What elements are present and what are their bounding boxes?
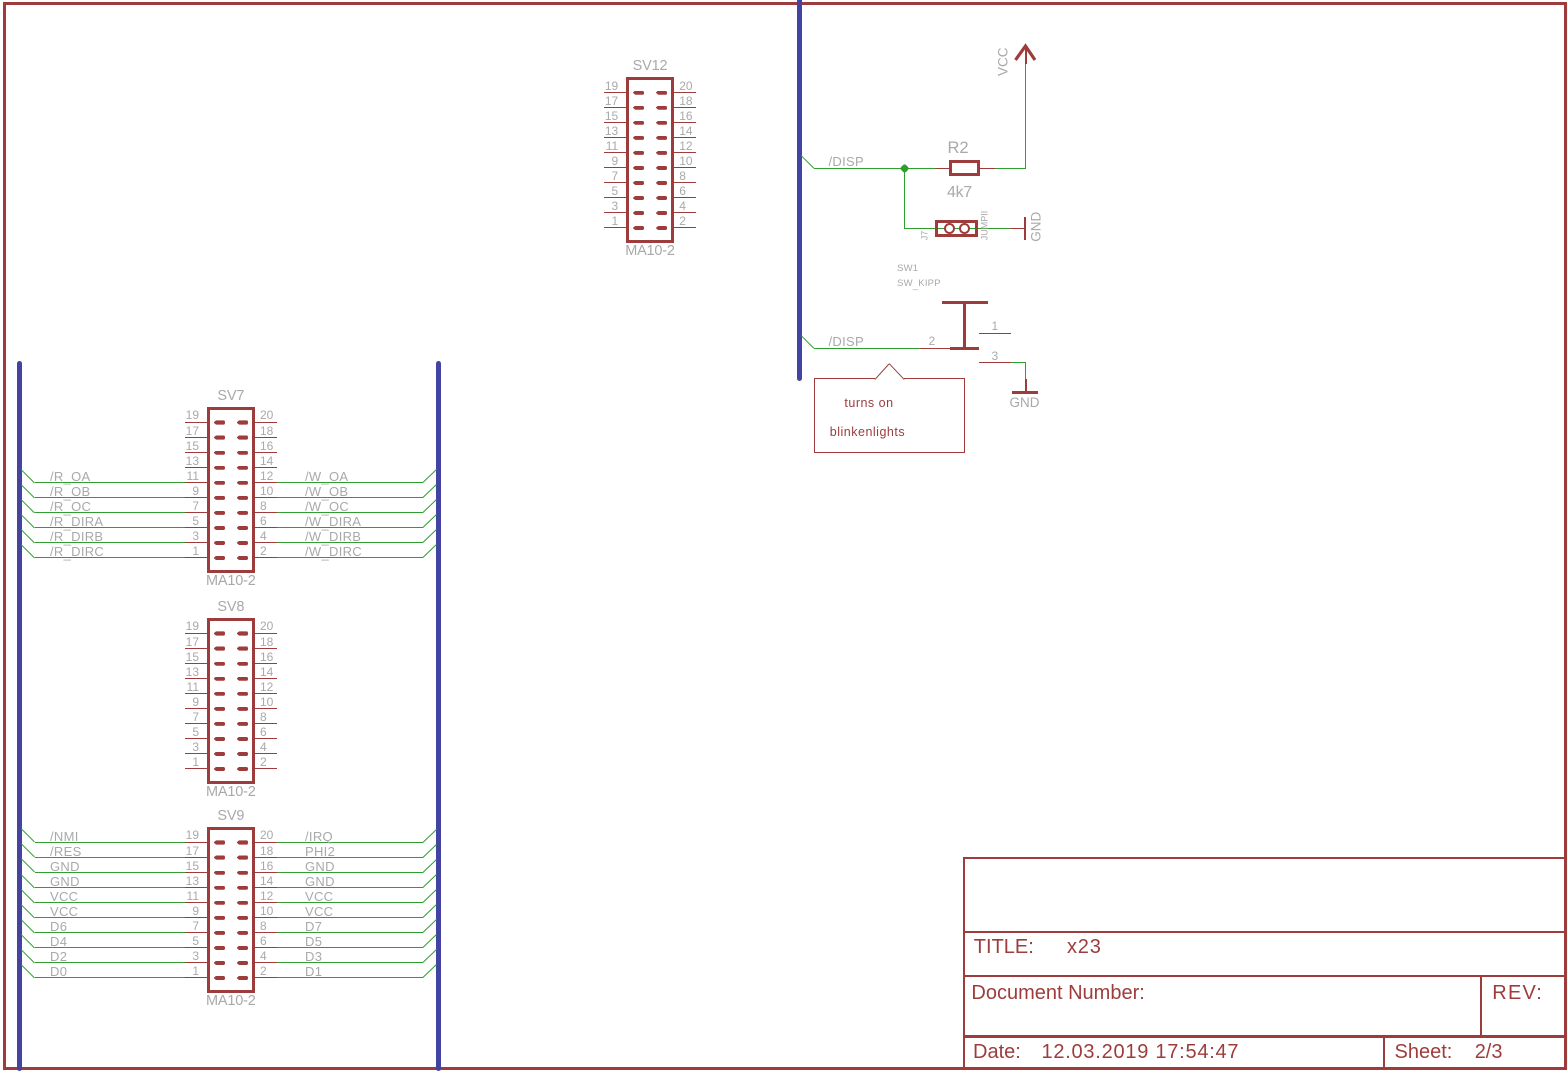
wire J7 to GND: [1010, 228, 1024, 229]
wire D1 (right): [277, 977, 424, 978]
SW1 pin 2: [920, 348, 950, 349]
jumper J7: [935, 220, 978, 237]
wire junction to J7: [904, 169, 905, 229]
SV8 pin 1: [185, 768, 207, 769]
SW1 pin 3: [979, 362, 1011, 363]
SV8 pin 14: [255, 678, 277, 679]
power symbol VCC: [1025, 46, 1027, 64]
SV9 pin 13: [185, 887, 207, 888]
SV12 name label: [610, 59, 690, 74]
net label /DISP: [829, 155, 864, 168]
net label /DISP (lower): [829, 335, 864, 348]
wire GND (right): [277, 887, 424, 888]
title block: [963, 857, 965, 1067]
net label D2: [50, 950, 67, 963]
wire D0 (left): [21, 964, 35, 978]
SV12 pin 3: [604, 212, 626, 213]
net label D3: [305, 950, 322, 963]
wire /R_OB (left): [21, 484, 35, 498]
SV12 pin 6: [674, 197, 696, 198]
SV12 pin 13: [604, 137, 626, 138]
SV8 pin 11: [185, 693, 207, 694]
net label D5: [305, 935, 322, 948]
wire VCC (right): [277, 902, 424, 903]
SV8 pin 18: [255, 648, 277, 649]
SV12 value MA10-2: [610, 244, 690, 259]
SV8 pin 8: [255, 723, 277, 724]
R2 value 4k7: [947, 185, 972, 201]
SV8 pin 15: [185, 663, 207, 664]
SV9 pin 16: [255, 872, 277, 873]
connector SV12 box: [626, 77, 674, 243]
SV9 pin 8: [255, 932, 277, 933]
net label VCC: [50, 890, 78, 903]
junction: [899, 164, 909, 174]
net label PHI2: [305, 845, 335, 858]
SV7 pin 14: [255, 467, 277, 468]
net label D6: [50, 920, 67, 933]
net label VCC: [305, 905, 333, 918]
net label D0: [50, 965, 67, 978]
wire /R_OA (left): [21, 469, 35, 483]
SV12 pin 20: [674, 92, 696, 93]
SV9 pin 1: [185, 977, 207, 978]
bus line right: [436, 361, 441, 1071]
bus line left: [17, 361, 22, 1071]
SV12 pin 9: [604, 167, 626, 168]
SV8 pin 7: [185, 723, 207, 724]
SV7 value MA10-2: [191, 574, 271, 589]
wire VCC (left): [21, 904, 35, 918]
SV12 pin 5: [604, 197, 626, 198]
SV7 pin 20: [255, 422, 277, 423]
net label /R_DIRA: [50, 515, 103, 528]
SV12 pin 10: [674, 167, 696, 168]
SV8 pin 19: [185, 633, 207, 634]
wire /W_OB (right): [277, 497, 424, 498]
SV7 pin 10: [255, 497, 277, 498]
net label /W_DIRC: [305, 545, 362, 558]
wire D7 (right): [277, 932, 424, 933]
net label GND: [50, 875, 80, 888]
wire /R_DIRC (left): [21, 544, 35, 558]
J7 value JUMPII: [981, 165, 990, 285]
SV7 pin 17: [185, 437, 207, 438]
date row: [973, 1042, 1021, 1062]
SV12 pin 15: [604, 122, 626, 123]
SV8 pin 13: [185, 678, 207, 679]
wire /W_OA (right): [277, 482, 424, 483]
SV12 pin 2: [674, 227, 696, 228]
wire GND (left): [21, 859, 35, 873]
SV7 pin 7: [185, 512, 207, 513]
ground GND (switch): [1025, 379, 1027, 393]
SV8 pin 17: [185, 648, 207, 649]
connector SV8 box: [207, 618, 255, 784]
connector SV9 box: [207, 827, 255, 993]
SV9 pin 19: [185, 842, 207, 843]
wire D6 (left): [21, 919, 35, 933]
wire /NMI (left): [21, 829, 35, 843]
net label /NMI: [50, 830, 79, 843]
SV8 value MA10-2: [191, 785, 271, 800]
SV7 pin 9: [185, 497, 207, 498]
net label /IRQ: [305, 830, 333, 843]
net label /R_DIRC: [50, 545, 104, 558]
wire D4 (left): [21, 934, 35, 948]
SV7 pin 4: [255, 542, 277, 543]
wire /R_DIRA (left): [21, 514, 35, 528]
wire D2 (left): [21, 949, 35, 963]
SV9 pin 20: [255, 842, 277, 843]
ground GND (jumper): [1024, 217, 1027, 241]
wire /IRQ (right): [277, 842, 424, 843]
SV9 pin 12: [255, 902, 277, 903]
SV7 pin 15: [185, 452, 207, 453]
SV7 pin 5: [185, 527, 207, 528]
SV9 pin 15: [185, 872, 207, 873]
SV9 pin 14: [255, 887, 277, 888]
wire /W_OC (right): [277, 512, 424, 513]
net label /W_DIRB: [305, 530, 361, 543]
SV8 pin 20: [255, 633, 277, 634]
wire GND (left): [21, 874, 35, 888]
wire /DISP (upper): [801, 155, 815, 169]
wire VCC (right): [277, 917, 424, 918]
SV7 pin 3: [185, 542, 207, 543]
bus line top right: [797, 0, 802, 381]
net label VCC: [305, 890, 333, 903]
wire D5 (right): [277, 947, 424, 948]
SV8 pin 12: [255, 693, 277, 694]
VCC label: [997, 2, 1011, 122]
SV7 name label: [191, 389, 271, 404]
switch SW1 lever: [942, 301, 989, 304]
SV12 pin 11: [604, 152, 626, 153]
SV8 pin 16: [255, 663, 277, 664]
SV12 pin 1: [604, 227, 626, 228]
net label GND: [305, 860, 335, 873]
wire /RES (left): [21, 844, 35, 858]
SV7 pin 6: [255, 527, 277, 528]
note text: [844, 397, 893, 410]
SV8 pin 2: [255, 768, 277, 769]
SV7 pin 8: [255, 512, 277, 513]
SV9 pin 7: [185, 932, 207, 933]
SW1 name label: [897, 264, 918, 274]
SV12 pin 19: [604, 92, 626, 93]
net label GND: [50, 860, 80, 873]
wire D3 (right): [277, 962, 424, 963]
net label /R_DIRB: [50, 530, 103, 543]
SV8 pin 10: [255, 708, 277, 709]
SV9 pin 11: [185, 902, 207, 903]
net label D4: [50, 935, 67, 948]
SV9 pin 5: [185, 947, 207, 948]
document number row: [971, 983, 1144, 1003]
resistor R2: [935, 168, 949, 169]
SV8 name label: [191, 600, 271, 615]
wire R2 to VCC: [995, 168, 1026, 169]
wire /R_OC (left): [21, 499, 35, 513]
SV12 pin 18: [674, 107, 696, 108]
SV7 pin 12: [255, 482, 277, 483]
SV9 pin 10: [255, 917, 277, 918]
net label /R_OA: [50, 470, 91, 483]
SV12 pin 17: [604, 107, 626, 108]
SW1 value SW_KIPP: [897, 279, 941, 289]
note box "turns on blinkenlights": [814, 379, 964, 453]
SV7 pin 19: [185, 422, 207, 423]
wire /W_DIRA (right): [277, 527, 424, 528]
SV8 pin 3: [185, 753, 207, 754]
net label /W_OC: [305, 500, 349, 513]
wire GND (right): [277, 872, 424, 873]
net label /R_OB: [50, 485, 91, 498]
wire VCC (left): [21, 889, 35, 903]
SV9 pin 17: [185, 857, 207, 858]
J7 name label: [920, 175, 929, 295]
wire /DISP (lower): [801, 335, 815, 349]
SV8 pin 6: [255, 738, 277, 739]
title text: [974, 937, 1034, 957]
connector SV7 box: [207, 407, 255, 573]
SV12 pin 7: [604, 182, 626, 183]
SV9 pin 4: [255, 962, 277, 963]
SV9 name label: [191, 809, 271, 824]
net label /W_OA: [305, 470, 348, 483]
SV12 pin 12: [674, 152, 696, 153]
SV8 pin 5: [185, 738, 207, 739]
SV8 pin 4: [255, 753, 277, 754]
wire PHI2 (right): [277, 857, 424, 858]
SV7 pin 18: [255, 437, 277, 438]
SV12 pin 14: [674, 137, 696, 138]
SV7 pin 11: [185, 482, 207, 483]
SV7 pin 13: [185, 467, 207, 468]
net label /R_OC: [50, 500, 91, 513]
wire SW1 pin3 to GND: [1011, 362, 1027, 363]
SV12 pin 16: [674, 122, 696, 123]
net label /W_OB: [305, 485, 348, 498]
SV9 pin 6: [255, 947, 277, 948]
SV7 pin 2: [255, 557, 277, 558]
SV12 pin 8: [674, 182, 696, 183]
SV9 pin 9: [185, 917, 207, 918]
wire /R_DIRB (left): [21, 529, 35, 543]
SV8 pin 9: [185, 708, 207, 709]
net label D1: [305, 965, 322, 978]
SV9 pin 18: [255, 857, 277, 858]
SV7 pin 1: [185, 557, 207, 558]
net label /W_DIRA: [305, 515, 361, 528]
wire /W_DIRC (right): [277, 557, 424, 558]
net label /RES: [50, 845, 82, 858]
net label GND: [305, 875, 335, 888]
wire /W_DIRB (right): [277, 542, 424, 543]
net label D7: [305, 920, 322, 933]
SV12 pin 4: [674, 212, 696, 213]
SV9 value MA10-2: [191, 994, 271, 1009]
R2 name label: [948, 140, 969, 157]
SV7 pin 16: [255, 452, 277, 453]
SV9 pin 3: [185, 962, 207, 963]
SV9 pin 2: [255, 977, 277, 978]
net label VCC: [50, 905, 78, 918]
SW1 pin 1: [979, 333, 1011, 334]
